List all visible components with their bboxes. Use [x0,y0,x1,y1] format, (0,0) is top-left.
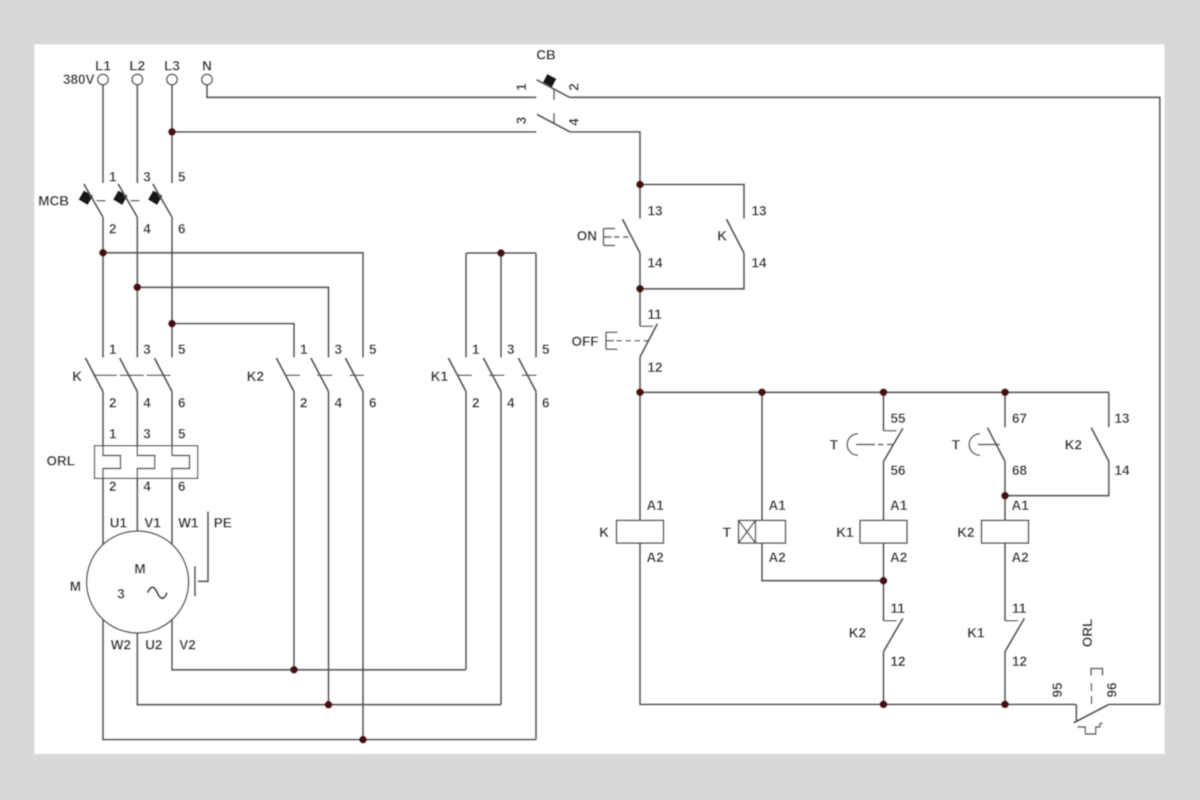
svg-text:12: 12 [1012,654,1027,669]
svg-text:3: 3 [143,342,151,357]
svg-text:K1: K1 [967,626,985,641]
svg-text:3: 3 [117,586,125,601]
svg-text:A1: A1 [1012,498,1030,513]
svg-text:OFF: OFF [572,334,599,349]
svg-text:4: 4 [507,395,515,410]
svg-text:A1: A1 [769,498,787,513]
svg-text:CB: CB [536,47,556,62]
svg-text:2: 2 [567,83,582,91]
svg-text:L3: L3 [164,59,180,74]
svg-text:K1: K1 [836,525,854,540]
svg-text:A2: A2 [647,550,664,565]
svg-text:67: 67 [1012,411,1027,426]
svg-text:A2: A2 [1012,550,1029,565]
svg-text:A2: A2 [769,550,786,565]
svg-text:T: T [952,438,961,453]
svg-text:MCB: MCB [38,193,69,208]
svg-text:A1: A1 [647,498,665,513]
svg-text:5: 5 [369,342,377,357]
svg-text:1: 1 [472,342,480,357]
svg-text:3: 3 [514,116,529,124]
svg-text:380V: 380V [63,72,95,87]
svg-text:ORL: ORL [1080,619,1095,648]
svg-text:96: 96 [1105,682,1120,698]
svg-text:U2: U2 [145,637,162,652]
svg-text:2: 2 [300,395,308,410]
svg-text:14: 14 [1115,463,1131,478]
svg-text:6: 6 [178,395,186,410]
svg-text:A2: A2 [890,550,907,565]
svg-text:V2: V2 [179,637,196,652]
svg-text:ON: ON [577,228,597,243]
svg-text:A1: A1 [890,498,908,513]
svg-text:T: T [723,525,732,540]
svg-text:13: 13 [752,204,768,219]
svg-text:12: 12 [891,654,906,669]
svg-text:4: 4 [143,222,151,237]
svg-text:L1: L1 [95,59,111,74]
svg-text:K2: K2 [849,626,866,641]
svg-text:1: 1 [514,83,529,91]
svg-text:5: 5 [542,342,550,357]
svg-text:K2: K2 [247,369,264,384]
svg-text:U1: U1 [110,515,128,530]
svg-text:ORL: ORL [47,453,76,468]
svg-text:1: 1 [109,342,117,357]
svg-text:2: 2 [109,222,117,237]
svg-text:2: 2 [109,395,117,410]
svg-text:6: 6 [542,395,550,410]
svg-text:2: 2 [472,395,480,410]
svg-text:3: 3 [143,426,151,441]
svg-text:4: 4 [335,395,343,410]
svg-text:1: 1 [109,426,117,441]
svg-text:K2: K2 [1065,438,1082,453]
svg-text:13: 13 [648,204,664,219]
svg-text:M: M [70,579,81,594]
svg-text:K: K [72,369,82,384]
svg-text:T: T [830,438,839,453]
svg-text:2: 2 [109,479,117,494]
svg-text:K1: K1 [431,369,449,384]
svg-text:6: 6 [178,222,186,237]
svg-text:6: 6 [369,395,377,410]
svg-text:3: 3 [335,342,343,357]
svg-text:14: 14 [648,256,664,271]
svg-text:11: 11 [891,601,906,616]
svg-text:55: 55 [891,411,907,426]
svg-text:5: 5 [178,342,186,357]
svg-text:56: 56 [891,463,907,478]
svg-text:13: 13 [1115,411,1131,426]
svg-text:K: K [599,525,609,540]
svg-text:PE: PE [214,515,232,530]
svg-text:K2: K2 [957,525,974,540]
svg-text:V1: V1 [144,515,161,530]
svg-text:6: 6 [178,479,186,494]
svg-text:5: 5 [178,426,186,441]
svg-text:W1: W1 [178,515,199,530]
svg-text:4: 4 [143,395,151,410]
svg-text:W2: W2 [111,637,131,652]
svg-text:N: N [202,59,212,74]
svg-text:1: 1 [109,170,117,185]
svg-text:1: 1 [300,342,308,357]
svg-text:M: M [134,561,145,576]
svg-text:68: 68 [1012,463,1028,478]
svg-text:95: 95 [1050,682,1065,698]
svg-text:11: 11 [648,307,663,322]
svg-text:5: 5 [178,170,186,185]
svg-text:L2: L2 [129,59,145,74]
svg-text:11: 11 [1012,601,1027,616]
svg-text:4: 4 [143,479,151,494]
svg-text:12: 12 [648,360,663,375]
svg-text:K: K [717,228,727,243]
svg-text:3: 3 [143,170,151,185]
svg-text:14: 14 [752,256,768,271]
svg-text:3: 3 [507,342,515,357]
svg-text:4: 4 [567,118,582,126]
